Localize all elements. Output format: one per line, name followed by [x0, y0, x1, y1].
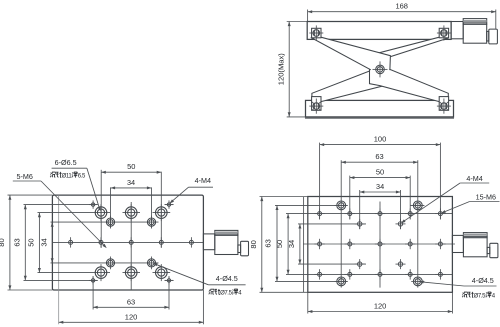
- counterbored hole 6.5: [125, 207, 137, 219]
- svg-text:120: 120: [125, 312, 138, 321]
- M4 hole: [167, 203, 170, 206]
- right view knob stub: [452, 235, 463, 252]
- counterbored hole 6.5: [95, 267, 107, 279]
- dimension 120(Max): [288, 22, 290, 117]
- left view vertical centreline: [130, 202, 132, 290]
- ext 50 left: [349, 176, 351, 220]
- ext line 34 right: [151, 187, 153, 227]
- dimension 63 bottom: [93, 306, 169, 308]
- ext line cb45 row bottom: [51, 262, 159, 264]
- svg-text:168: 168: [395, 2, 408, 11]
- svg-text:34: 34: [287, 240, 296, 248]
- counterbored hole 6.5: [156, 207, 168, 219]
- note counterbore 11 deep 6.5: [50, 172, 56, 177]
- M6 hole grid: [348, 272, 352, 276]
- M6 hole row centre #2: [99, 240, 103, 244]
- side view bottom plate: [306, 100, 454, 117]
- M6 hole grid: [318, 272, 322, 276]
- M6 hole grid: [378, 272, 382, 276]
- right knob knurl band: [463, 237, 487, 239]
- row 3 centreline: [286, 273, 452, 275]
- svg-text:4-M4: 4-M4: [466, 174, 482, 183]
- ext line cb row bottom: [38, 272, 111, 274]
- dimension 63 left: [24, 205, 26, 281]
- ext line cb row top: [38, 212, 111, 214]
- svg-text:80: 80: [249, 240, 258, 248]
- note counterbore 7.5 deep 4 right view: [462, 292, 468, 297]
- note counterbore 7.5 deep 4 left view: [209, 289, 215, 294]
- scissor link top-right to centre: [366, 37, 448, 64]
- ext line 34 left: [110, 187, 112, 227]
- svg-text:120: 120: [374, 302, 387, 311]
- bottom plate lower edge shadow: [306, 117, 454, 119]
- dimension 50 top right view: [350, 177, 410, 179]
- dimension 50 top: [101, 171, 161, 173]
- dimension 80 right view: [261, 197, 263, 293]
- svg-text:6-Ø6.5: 6-Ø6.5: [55, 158, 77, 167]
- bottom-right clevis bracket: [439, 97, 448, 111]
- bottom-left pivot screw: [313, 103, 320, 110]
- dimension 80 left: [9, 195, 11, 290]
- top-right clevis bracket: [439, 28, 448, 38]
- M6 hole grid: [408, 242, 412, 246]
- ext line 63 bottom left: [92, 276, 94, 309]
- ext line 168 right: [495, 10, 497, 29]
- M4 hole: [91, 279, 94, 282]
- ext line M4 row top: [24, 204, 98, 206]
- side view knob body: [463, 19, 487, 44]
- M6 hole grid: [438, 212, 442, 216]
- counterbored hole 4.5: [147, 259, 155, 267]
- scissor link centre to bottom-right: [370, 69, 449, 101]
- ext 63 row bottom: [275, 280, 348, 282]
- svg-text:34: 34: [127, 178, 135, 187]
- svg-text:63: 63: [375, 152, 383, 161]
- top-right pivot screw: [441, 30, 448, 37]
- counterbored hole 4.5: [106, 259, 114, 267]
- ext 63 row top: [275, 204, 348, 206]
- dimension 120 bottom: [59, 321, 204, 323]
- counterbored hole 4.5 right view: [413, 277, 422, 286]
- dimension 34 left chain: [299, 224, 301, 264]
- M6 hole grid: [378, 242, 382, 246]
- counterbored hole 4.5 right view: [337, 201, 346, 210]
- bottom-right pivot screw: [441, 103, 448, 110]
- right view knob end cap: [490, 243, 498, 257]
- ext 34 row bottom: [298, 263, 366, 265]
- svg-text:4-Ø4.5: 4-Ø4.5: [472, 276, 494, 285]
- ext line 120max bottom: [287, 116, 306, 118]
- svg-text:Ø7.5: Ø7.5: [220, 291, 232, 297]
- svg-text:80: 80: [0, 238, 6, 246]
- svg-text:63: 63: [263, 239, 272, 247]
- ext line 120 right: [202, 290, 204, 324]
- svg-text:6.5: 6.5: [78, 174, 86, 180]
- ext 63 right: [417, 160, 419, 287]
- M6 hole row centre #1: [69, 240, 73, 244]
- svg-text:Ø7.5: Ø7.5: [474, 294, 486, 300]
- M6 hole grid: [348, 212, 352, 216]
- ext 34 left: [359, 190, 361, 229]
- side view drive knob stub: [451, 22, 463, 39]
- ext 120 right: [451, 292, 453, 313]
- ext 80 top: [260, 196, 308, 198]
- ext line M4 row bottom: [24, 279, 98, 281]
- top-left pivot screw: [313, 30, 320, 37]
- dimension 100: [320, 144, 441, 146]
- svg-text:4-M4: 4-M4: [195, 176, 211, 185]
- counterbored hole 6.5: [156, 267, 168, 279]
- svg-text:34: 34: [376, 182, 384, 191]
- left view knob connector: [238, 245, 241, 253]
- svg-text:120(Max): 120(Max): [276, 53, 285, 86]
- M4 hole right view: [398, 222, 402, 226]
- dimension 34 top right view: [360, 191, 401, 193]
- right view hidden platform edge: [303, 197, 305, 292]
- left view centre row centreline: [52, 241, 203, 243]
- ext 63 left: [340, 160, 342, 287]
- counterbored hole 6.5: [125, 267, 137, 279]
- left knob knurl band: [215, 234, 238, 236]
- M6 hole grid: [318, 212, 322, 216]
- dimension 63 left chain: [276, 205, 278, 281]
- svg-text:50: 50: [27, 238, 36, 246]
- left view plate outline: [52, 195, 203, 290]
- left view knob end cap: [241, 241, 249, 256]
- M6 hole grid: [378, 212, 382, 216]
- ext 100 right: [439, 143, 441, 220]
- row 2 centreline: [303, 243, 455, 245]
- dimension 34 top: [111, 187, 152, 189]
- M6 hole grid: [318, 242, 322, 246]
- ext line 63 bottom right: [168, 276, 170, 309]
- top-left clevis bracket: [312, 28, 321, 38]
- ext 100 left: [319, 143, 321, 220]
- M6 hole grid: [408, 212, 412, 216]
- M4 hole right view: [358, 262, 362, 266]
- counterbored hole 4.5: [147, 218, 155, 226]
- svg-text:100: 100: [374, 135, 387, 144]
- ext 80 bottom: [260, 291, 308, 293]
- ext line 168 left: [307, 10, 309, 22]
- M4 hole right view: [398, 262, 402, 266]
- right view knob connector: [487, 247, 490, 253]
- side view top plate: [307, 22, 451, 40]
- vertical centreline: [379, 202, 381, 288]
- ext line 120max top: [287, 21, 308, 23]
- M4 hole right view: [358, 222, 362, 226]
- knob knurl band: [463, 23, 487, 25]
- scissor link top-left to centre: [312, 37, 391, 69]
- left view knob stub: [203, 234, 214, 250]
- svg-text:50: 50: [275, 240, 284, 248]
- side view knob connector: [487, 31, 489, 41]
- svg-text:4-Ø4.5: 4-Ø4.5: [216, 274, 238, 283]
- dimension 50 left: [38, 213, 40, 273]
- dimension 50 left chain: [287, 214, 289, 275]
- svg-text:Ø11: Ø11: [62, 174, 73, 180]
- M4 hole: [91, 203, 94, 206]
- ext line cb45 row top: [51, 221, 159, 223]
- bottom-left clevis bracket: [312, 97, 321, 111]
- svg-text:63: 63: [12, 238, 21, 246]
- ext line 80 top: [8, 194, 53, 196]
- left view hidden base edge / ext line 120: [58, 195, 60, 324]
- side view knob end cap: [489, 29, 498, 44]
- ext line col2: [100, 172, 102, 248]
- ext 34 row top: [298, 223, 366, 225]
- M6 hole grid: [438, 242, 442, 246]
- counterbored hole 4.5 right view: [413, 201, 422, 210]
- M6 hole grid: [438, 272, 442, 276]
- left view knob body: [215, 230, 238, 254]
- M6 hole row centre #4: [159, 240, 163, 244]
- svg-text:63: 63: [127, 297, 135, 306]
- dimension 120 right view: [308, 311, 453, 313]
- M6 hole grid: [348, 242, 352, 246]
- ext line 80 bottom: [8, 289, 53, 291]
- dimension 63 top right view: [341, 161, 418, 163]
- centre pivot: [376, 65, 385, 74]
- counterbored hole 4.5: [106, 218, 114, 226]
- counterbored hole 4.5 right view: [337, 277, 346, 286]
- M4 hole: [167, 279, 170, 282]
- M6 hole grid: [408, 272, 412, 276]
- ext line col4: [160, 172, 162, 248]
- M6 hole row centre #5: [189, 240, 193, 244]
- dimension 168: [308, 11, 496, 13]
- scissor link centre to bottom-left: [312, 64, 388, 102]
- svg-text:34: 34: [39, 238, 48, 246]
- svg-text:5-M6: 5-M6: [17, 172, 33, 181]
- row 1 centreline: [286, 213, 452, 215]
- counterbored hole 6.5: [95, 207, 107, 219]
- M6 hole row centre #3: [129, 240, 133, 244]
- ext 50 right: [409, 176, 411, 220]
- ext 34 right: [400, 190, 402, 229]
- right view knob body: [463, 233, 487, 257]
- svg-text:15-M6: 15-M6: [476, 192, 496, 201]
- ext 120 left: [307, 292, 309, 313]
- dimension 34 left: [51, 222, 53, 263]
- svg-text:50: 50: [376, 168, 384, 177]
- right view plate outline: [308, 197, 453, 293]
- svg-text:50: 50: [127, 162, 135, 171]
